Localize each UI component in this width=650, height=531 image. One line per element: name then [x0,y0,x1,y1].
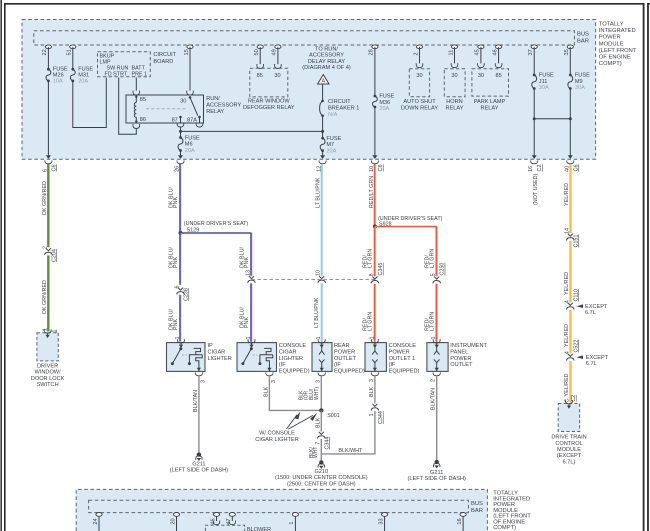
svg-text:3: 3 [201,380,207,383]
wire DK BLU/PNK connector 13 to console cigar lighter [251,283,253,342]
svg-text:REAR WINDOW: REAR WINDOW [248,99,290,105]
wire LT BLU/PNK pin 12 to connector 10 [322,164,324,276]
svg-text:2: 2 [42,246,48,249]
body connector pin 13 [249,276,254,279]
fuse M9 30A [569,74,572,77]
switch SW1 DRIVER WINDOW/DOOR LOCK SWITCH dashed box [37,333,58,361]
svg-text:SWITCH: SWITCH [37,382,59,388]
bus pin 11 [451,45,457,49]
svg-text:BLOWER: BLOWER [247,527,271,531]
bus pin 28 [372,45,378,49]
adjacent page top border stub [647,3,650,5]
svg-text:C345: C345 [378,263,384,276]
svg-text:FUSE: FUSE [326,136,341,142]
svg-text:CIGAR LIGHTER: CIGAR LIGHTER [255,437,299,443]
svg-text:M6: M6 [185,142,193,148]
svg-text:50: 50 [254,49,260,55]
svg-text:86: 86 [140,117,146,123]
svg-text:C6: C6 [51,164,57,171]
svg-text:EQUIPPED): EQUIPPED) [279,368,310,374]
svg-text:YEL/RED: YEL/RED [564,272,570,295]
svg-text:PNK: PNK [244,317,250,328]
wire bus pin to PARK LAMP [480,47,482,64]
connector C522 pin 4 [568,354,573,357]
svg-text:(IF: (IF [389,362,396,368]
splice S001 [319,408,323,412]
wire DK GRN/RED C204 to switch [48,255,50,331]
svg-text:BUS: BUS [471,501,483,507]
svg-text:FUSE: FUSE [379,94,394,100]
svg-text:30A: 30A [539,85,549,91]
svg-text:DELAY RELAY: DELAY RELAY [308,59,346,65]
svg-text:PNK: PNK [173,197,179,208]
svg-text:6.7L): 6.7L) [563,459,576,465]
bus pin 15 [187,45,193,49]
svg-text:30: 30 [416,73,422,79]
svg-text:(DIAGRAM 4 OF 4): (DIAGRAM 4 OF 4) [302,65,351,71]
wire DK BLU/PNK branch down to connector 13 [251,233,253,276]
svg-text:20A: 20A [78,78,88,84]
svg-text:16: 16 [457,518,463,524]
svg-text:RELAY: RELAY [446,106,464,112]
svg-text:(LEFT FRONT: (LEFT FRONT [599,48,637,54]
svg-text:20: 20 [170,518,176,524]
svg-text:6: 6 [175,286,181,289]
svg-text:YEL/RED: YEL/RED [564,373,570,396]
relay pin 87 connector and wire to junction [177,123,184,127]
svg-text:PANEL: PANEL [450,350,468,356]
wire fuse M9 to pin 40 [569,89,571,156]
svg-text:6.7L: 6.7L [586,361,597,367]
wire RED/LT GRN C250 to instrument panel power outlet [436,284,438,342]
svg-text:BLK/WHT: BLK/WHT [338,448,363,454]
svg-text:CONTROL: CONTROL [555,441,582,447]
svg-text:LT BLU/PNK: LT BLU/PNK [316,177,322,208]
svg-text:30: 30 [478,73,484,79]
wire YEL/RED C110 to C522 [570,310,572,353]
svg-text:BAR: BAR [471,508,483,514]
wire bus pin to HORN [454,47,456,64]
svg-text:(UNDER DRIVER'S SEAT): (UNDER DRIVER'S SEAT) [184,221,249,227]
fuse M36 20A [374,95,377,98]
wire bus pin to AUTO SHUT [419,47,421,64]
relay K1 RUN/ACCESSORY RELAY box [126,95,204,123]
svg-text:OF ENGINE: OF ENGINE [599,54,631,60]
svg-text:(NOT USED): (NOT USED) [533,173,539,205]
bottom bus pin 45 [213,513,219,517]
svg-text:FUSE: FUSE [539,73,554,79]
wire BATT PRE 1 terminal to relay pin 85 [135,78,137,91]
svg-text:LT GRN: LT GRN [368,249,374,268]
svg-text:35: 35 [564,49,570,55]
connector C250 pin 5 [434,277,439,280]
svg-text:1: 1 [369,337,375,340]
bus pin 22 [45,45,51,49]
circuit board terminal box BKUP LMP / SW RUN FD STRT / BATT PRE 1 [98,52,151,77]
svg-text:LT GRN: LT GRN [429,249,435,268]
svg-text:5: 5 [431,273,437,276]
fuse M6 20A [179,136,182,139]
svg-text:W/ CONSOLE: W/ CONSOLE [259,430,295,436]
ground G211 (right) [435,460,439,464]
svg-text:AUTO SHUT: AUTO SHUT [403,99,436,105]
svg-text:DOOR LOCK: DOOR LOCK [31,376,65,382]
TIPM exit pin 16 C2 (not used) [532,155,537,159]
svg-text:DK GRN/RED: DK GRN/RED [42,181,48,215]
wire BLK S001 to C344 [320,410,322,431]
wire fuse M26 to pin 6 [47,81,49,155]
svg-text:C204: C204 [51,249,57,262]
svg-text:G211: G211 [192,461,205,467]
load INSTRUMENT PANEL POWER OUTLET box [427,343,448,372]
svg-text:1: 1 [431,337,437,340]
svg-text:COMPT): COMPT) [493,525,516,531]
svg-text:M7: M7 [326,142,334,148]
svg-text:S001: S001 [327,413,340,419]
fuse M26 10A [47,68,50,71]
relay switch 30/87/87A [189,96,192,99]
svg-text:BLK: BLK [263,386,269,397]
svg-text:(LEFT SIDE OF DASH): (LEFT SIDE OF DASH) [408,476,466,482]
TIPM exit pin 12 [320,155,325,159]
connector C204 pin 2 [46,248,51,251]
svg-text:1: 1 [369,414,375,417]
svg-text:FUSE: FUSE [575,73,590,79]
load REAR POWER OUTLET box [312,343,332,372]
svg-text:WINDOW/: WINDOW/ [35,370,62,376]
IP CIGAR LIGHTER heating element [188,362,191,365]
svg-text:33: 33 [378,518,384,524]
module U1 TIPM (bottom, continued) dashed box [76,489,487,531]
svg-text:22: 22 [42,49,48,55]
svg-text:LIGHTER: LIGHTER [208,356,232,362]
svg-text:C2: C2 [537,164,543,171]
connector C344 pin 1 [372,404,377,407]
svg-text:37: 37 [528,49,534,55]
svg-text:2: 2 [431,379,437,382]
svg-text:(IF: (IF [279,362,286,368]
bottom bus pin 24 [96,513,102,517]
wire RED/LT GRN S928 to C345 [375,227,377,277]
body connector pin 10 [319,276,324,279]
svg-text:ACCESSORY: ACCESSORY [309,53,344,59]
relay K2 REAR WINDOW DEFOGGER RELAY dashed box [250,68,288,97]
bus pin 35 [567,45,573,49]
wire bus pin to defogger relay [277,47,279,64]
relay coil pins 85/86 [135,95,137,103]
svg-text:OUTLET: OUTLET [450,362,473,368]
wire triangle A to circuit breaker 1 [322,84,324,101]
wire RED/LT GRN branch down to C250 [436,227,438,277]
svg-text:3: 3 [271,380,277,383]
ground G210 [319,460,323,464]
svg-text:49: 49 [272,49,278,55]
svg-text:1: 1 [175,337,181,340]
fuse J11 30A [533,74,536,77]
svg-text:EXCEPT: EXCEPT [585,304,608,310]
wire circuit breaker to fuse M7 [322,116,324,138]
svg-text:DRIVER: DRIVER [37,363,58,369]
svg-text:MODULE: MODULE [557,447,581,453]
svg-text:REAR: REAR [334,343,350,349]
TIPM exit pin 40 C6 [568,155,573,159]
svg-text:C151: C151 [573,235,579,248]
wire bus pin 37 to fuse J11 [533,47,535,75]
connector C344 pin 7 (ground side) [319,432,324,435]
svg-text:(EXCEPT: (EXCEPT [557,453,582,459]
connector C151 pin 14 [568,234,573,237]
svg-text:CONSOLE: CONSOLE [279,343,307,349]
svg-text:87A: 87A [187,118,197,124]
connector C110 pin 4 [568,303,573,306]
svg-text:10: 10 [316,270,322,276]
svg-text:DOWN RELAY: DOWN RELAY [401,106,438,112]
module DRIVE TRAIN CONTROL MODULE dashed box [558,404,579,432]
svg-text:WHT: WHT [313,447,319,458]
wire bus pin 51 to fuse M31 [72,47,74,69]
bottom bus pin 16 [460,513,466,517]
svg-text:IP: IP [208,343,214,349]
svg-text:BOARD: BOARD [153,59,173,65]
wire BLK/WHT C344 to G210 [320,439,322,460]
load CONSOLE POWER OUTLET 1 box [365,343,386,372]
wire bus pin 35 to fuse M9 [569,47,571,75]
wire BLK/WHT console power outlet 1 to ground run [321,411,375,454]
svg-text:1: 1 [246,337,252,340]
wire DK BLU/PNK pin 26 to splice S129 [180,164,182,233]
wire RED/LT GRN pin 10 to splice S928 [375,164,377,227]
CONSOLE POWER OUTLET 1 outlet contacts [374,345,376,351]
wire fuse M7 to pin 12 [322,151,324,156]
svg-text:BLK/TAN: BLK/TAN [193,390,199,412]
wire bus pin 15 to relay pin 30 [189,47,191,91]
svg-text:C238: C238 [184,288,190,301]
IP CIGAR LIGHTER switch contacts [180,345,182,349]
svg-text:46: 46 [492,49,498,55]
wire bus pin 22 to fuse M26 [47,47,49,69]
svg-text:30: 30 [274,73,280,79]
svg-text:WHT): WHT) [314,387,320,400]
TIPM exit pin 6 C6 [46,155,51,159]
TIPM exit pin 10 C6 [372,155,377,159]
svg-text:ACCESSORY: ACCESSORY [206,103,241,109]
svg-text:LIGHTER: LIGHTER [279,356,303,362]
fuse M31 20A [71,68,74,71]
fuse M7 20A [321,137,324,140]
svg-text:16: 16 [528,166,534,172]
svg-text:OUTLET: OUTLET [334,356,357,362]
svg-text:C2: C2 [571,395,577,402]
bus bar B1 dashed box [34,31,575,45]
svg-text:7: 7 [315,442,321,445]
junction crossbar J11/M9 [534,118,570,120]
svg-text:BLK/TAN: BLK/TAN [431,388,437,410]
svg-text:HORN: HORN [446,99,462,105]
svg-text:PARK LAMP: PARK LAMP [474,99,506,105]
svg-text:BUS: BUS [577,32,589,38]
svg-text:11: 11 [448,50,454,56]
bottom bus pin 47 [229,513,235,517]
svg-text:YEL/RED: YEL/RED [564,324,570,347]
svg-text:1: 1 [316,337,322,340]
svg-text:PRE 1: PRE 1 [132,72,148,78]
wire fuse J11 to pin 16 [533,89,535,156]
bus pin 49 [275,45,281,49]
svg-text:24: 24 [93,518,99,524]
bus pin 51 [70,45,76,49]
svg-text:EQUIPPED): EQUIPPED) [334,368,365,374]
svg-text:LT GRN: LT GRN [429,312,435,331]
wire junction 87 to circuit breaker column [181,130,323,132]
svg-text:85: 85 [140,97,146,103]
svg-text:INSTRUMENT: INSTRUMENT [450,343,487,349]
svg-text:BAR: BAR [577,38,589,44]
svg-text:C522: C522 [573,340,579,353]
svg-text:PNK: PNK [244,257,250,268]
svg-text:J11: J11 [539,79,548,85]
svg-text:LT GRN: LT GRN [368,312,374,331]
svg-text:LT BLU/PNK: LT BLU/PNK [314,297,320,328]
svg-text:1: 1 [289,521,295,524]
svg-text:CIRCUIT: CIRCUIT [153,52,176,58]
svg-text:RELAY: RELAY [206,109,224,115]
svg-text:G211: G211 [430,470,443,476]
svg-text:30A: 30A [575,85,585,91]
svg-text:N/A: N/A [328,112,338,118]
junction node 87 feed [179,130,182,133]
bus pin 37 [531,45,537,49]
relay internal dashed link [146,108,186,110]
bus pin 2 [416,45,422,49]
svg-text:C250: C250 [440,263,446,276]
bottom bus pin 20 [173,513,179,517]
wire bus pin to defogger relay [259,47,261,64]
wire LT BLU/PNK connector 10 to rear power outlet [322,283,324,342]
bus pin 50 [257,45,263,49]
bus bar B2 dashed box (bottom) [89,500,469,512]
svg-text:OUTLET 1: OUTLET 1 [389,356,416,362]
svg-text:45: 45 [475,49,481,55]
svg-text:30: 30 [451,73,457,79]
wire DK BLU/PNK C238 to IP cigar lighter [180,295,182,342]
svg-text:EQUIPPED): EQUIPPED) [389,368,420,374]
svg-text:C6: C6 [573,164,579,171]
svg-text:RELAY: RELAY [481,106,499,112]
wire fuse M36 to pin 10 [374,107,376,155]
svg-text:RUN/: RUN/ [206,96,220,102]
svg-text:(LEFT SIDE OF DASH): (LEFT SIDE OF DASH) [170,468,228,474]
dashed harness separator line [252,279,375,281]
CONSOLE CIGAR LIGHTER heating element [258,362,261,365]
svg-text:M36: M36 [379,100,390,106]
svg-text:30: 30 [180,98,186,104]
svg-text:RED/LT GRN: RED/LT GRN [369,176,375,208]
svg-text:C344: C344 [324,437,330,450]
svg-text:(1500: UNDER CENTER CONSOLE): (1500: UNDER CENTER CONSOLE) [275,475,368,481]
svg-text:51: 51 [67,49,73,55]
svg-text:CIGAR: CIGAR [279,350,297,356]
svg-text:COMPT): COMPT) [599,61,622,67]
relay PARK LAMP RELAY dashed box [472,69,509,96]
off-page reference triangle A [318,75,329,84]
bottom bus pin 33 [382,513,388,517]
wire bus pin 28 to fuse M36 [374,47,376,96]
wire fuse M6 to pin 26 [180,151,182,156]
svg-text:TO RUN/: TO RUN/ [315,46,338,52]
bottom bus pin 1 [292,513,298,517]
svg-text:15: 15 [184,49,190,55]
wire SW RUN FD STRT terminal to relay pin 86 [119,78,137,135]
connector C238 pin 6 [178,288,183,291]
load IP CIGAR LIGHTER box [167,343,206,372]
svg-text:13: 13 [246,270,252,276]
page frame left border [4,3,6,531]
bus pin 45 [478,45,484,49]
svg-text:POWER: POWER [334,350,355,356]
svg-text:TOTALLY: TOTALLY [599,22,624,28]
svg-text:DEFOGGER RELAY: DEFOGGER RELAY [243,105,295,111]
svg-text:C6: C6 [378,164,384,171]
REAR POWER OUTLET outlet contacts [321,345,323,351]
module U1 TIPM (Totally Integrated Power Module) dashed box [22,20,596,160]
svg-text:POWER: POWER [389,350,410,356]
svg-text:28: 28 [369,49,375,55]
CONSOLE CIGAR LIGHTER switch contacts [251,345,253,349]
svg-text:EXCEPT: EXCEPT [586,355,609,361]
svg-text:CIRCUIT: CIRCUIT [328,99,351,105]
svg-text:10A: 10A [53,78,63,84]
svg-text:YEL/RED: YEL/RED [564,183,570,206]
svg-text:85: 85 [257,73,263,79]
svg-text:(IF: (IF [334,362,341,368]
TIPM exit pin 26 [178,155,183,159]
page frame right border [643,3,645,531]
svg-text:6.7L: 6.7L [585,310,596,316]
wire YEL/RED pin 40 to C151 [570,164,572,233]
svg-text:20A: 20A [379,106,389,112]
wire fuse M31 to circuit board BKUP LMP terminal [73,78,107,128]
svg-text:PNK: PNK [173,257,179,268]
svg-text:2: 2 [413,52,419,55]
adjacent page left border [647,3,649,531]
svg-text:A: A [321,79,325,85]
svg-text:20A: 20A [185,148,195,154]
relay HORN RELAY dashed box [444,69,465,97]
page frame top border [4,3,644,5]
INSTRUMENT PANEL POWER OUTLET outlet contacts [436,345,438,351]
bus pin 46 [496,45,502,49]
svg-text:G210: G210 [314,469,328,475]
svg-text:CIGAR: CIGAR [208,350,226,356]
svg-text:FD STRT: FD STRT [105,72,128,78]
svg-text:20A: 20A [326,148,336,154]
svg-text:BLK: BLK [315,417,321,428]
svg-text:M9: M9 [575,79,583,85]
svg-text:4: 4 [564,300,570,303]
wire branch S129 to console cigar lighter drop [181,232,252,234]
svg-text:POWER: POWER [450,356,471,362]
svg-text:MODULE: MODULE [599,41,624,47]
wire RED/LT GRN C345 to console power outlet 1 [375,284,377,342]
component box BLOWER (cut off) [205,525,244,531]
ground G211 (left) [197,452,201,456]
svg-text:4: 4 [564,351,570,354]
svg-text:1: 1 [42,328,48,331]
svg-text:PNK: PNK [173,319,179,330]
svg-text:DRIVE TRAIN: DRIVE TRAIN [551,435,586,441]
circuit breaker CB1 [321,100,324,103]
relay pin 87A stub connector [196,123,203,127]
